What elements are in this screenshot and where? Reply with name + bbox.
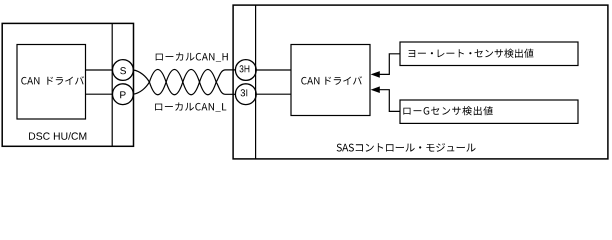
wire CAN driver to terminal P: [86, 93, 113, 95]
yaw-rate sensor box: [400, 42, 578, 66]
SAS connector column divider: [255, 5, 257, 159]
SAS control module box: [233, 5, 608, 159]
terminal label 3H: [240, 65, 250, 72]
terminal 3H: [235, 60, 256, 81]
terminal letter S: [120, 67, 126, 74]
label DSC HU/CM: [29, 132, 86, 140]
wire terminal 3H to CAN driver: [256, 69, 291, 71]
DSC HU/CM module box: [2, 23, 133, 146]
terminal letter P: [120, 91, 125, 98]
label CAN driver (SAS): [301, 76, 362, 85]
label local CAN_H: [156, 53, 228, 62]
wire CAN driver to terminal S: [86, 69, 113, 71]
label SAS control module: [337, 143, 476, 152]
wire terminal 3I to CAN driver: [256, 93, 291, 95]
twisted pair wire B (from P): [133, 69, 235, 94]
arrowhead into CAN driver (lower): [371, 86, 380, 93]
DSC connector column divider: [111, 23, 113, 146]
label low-G sensor detected value: [403, 106, 492, 115]
label CAN driver (DSC): [21, 76, 84, 85]
low-G sensor box: [400, 100, 578, 123]
label yaw rate sensor detected value: [408, 49, 533, 58]
terminal S: [113, 60, 134, 81]
terminal P: [113, 84, 134, 105]
wire yaw-rate box to CAN driver: [379, 54, 400, 75]
terminal label 3I: [241, 89, 248, 96]
twisted pair wire A (from S): [133, 69, 235, 94]
label local CAN_L: [155, 103, 226, 112]
wire low-G box to CAN driver: [379, 90, 400, 112]
CAN driver box (SAS side): [291, 45, 370, 116]
CAN driver box (DSC side): [17, 45, 86, 120]
arrowhead into CAN driver (upper): [371, 71, 380, 78]
terminal 3I: [235, 84, 256, 105]
